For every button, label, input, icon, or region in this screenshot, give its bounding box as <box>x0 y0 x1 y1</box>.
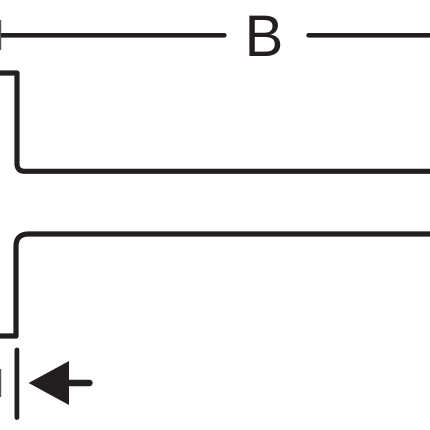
svg-text:B: B <box>245 4 284 69</box>
